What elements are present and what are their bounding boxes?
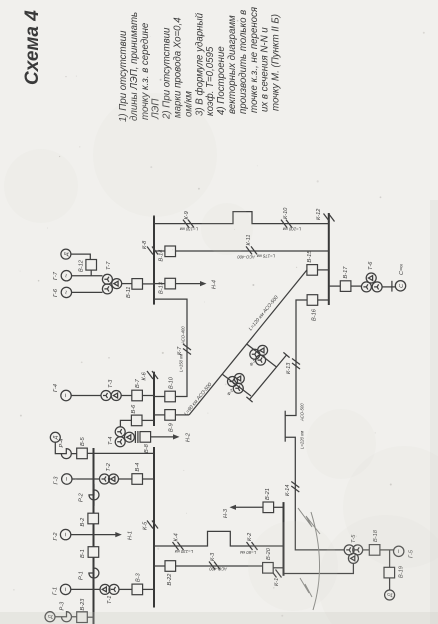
transformer Ф-2 (lower cluster) [226, 374, 244, 397]
wire В-4 to bus3b [143, 478, 155, 480]
svg-text:К-3: К-3 [210, 552, 216, 561]
svg-text:В-9: В-9 [169, 423, 175, 432]
svg-text:Н-2: Н-2 [186, 432, 192, 442]
transformer Т-6 [361, 261, 382, 292]
svg-text:Г-3: Г-3 [54, 476, 60, 485]
svg-text:В-11: В-11 [126, 287, 132, 298]
transformer Т-7 [102, 261, 121, 294]
svg-text:В-8: В-8 [144, 443, 150, 453]
load Н-2 arrow [151, 432, 192, 442]
bus section 3 (left) [153, 447, 155, 608]
reactor Р-4 [55, 439, 77, 459]
svg-text:Г-1: Г-1 [53, 587, 59, 595]
wire Д4 to В-12 [71, 254, 90, 259]
svg-text:К-4: К-4 [174, 533, 180, 541]
svg-text:Т-4: Т-4 [108, 437, 114, 445]
line К-3 (В-22 to В-20) [176, 565, 263, 567]
svg-text:векторных диаграмм: векторных диаграмм [227, 15, 238, 114]
svg-text:производить только в: производить только в [238, 10, 249, 114]
wire Г-2 through bus to load Н-1 [71, 531, 134, 540]
generator Г-1 [53, 584, 71, 595]
svg-text:Р-2: Р-2 [79, 492, 85, 502]
svg-text:их в сечения N-N и: их в сечения N-N и [260, 27, 271, 112]
diagonal line В-9 to В-15 (АСО-500) [189, 270, 307, 415]
load Н-3 arrow up [223, 505, 263, 518]
breaker В-23 [77, 598, 88, 623]
svg-text:С=∞: С=∞ [399, 264, 405, 275]
wire bus3 to В-22 [154, 565, 165, 567]
generator Г-2 [53, 529, 71, 540]
wire В-9 to diagonal [175, 414, 189, 416]
wire Т-6 to system [382, 286, 395, 288]
fault К-13 [286, 359, 300, 375]
motor Д3 [45, 612, 55, 622]
fault К-11 [246, 235, 257, 255]
reactor Р-3 [56, 601, 78, 622]
wire Т-5 to В-18 [363, 549, 369, 551]
wire Т-3 to В-7 [121, 395, 131, 397]
fault К-6 on bus3a [142, 371, 159, 381]
svg-text:В-21: В-21 [265, 488, 271, 500]
wire В-20 to bus4 [273, 567, 283, 569]
svg-text:К-6: К-6 [142, 371, 148, 380]
wire Т-7 to В-11 [122, 283, 132, 285]
fault К-3 [209, 552, 220, 570]
transformer Ф-1 (upper cluster) [248, 345, 267, 367]
svg-text:Т-7: Т-7 [106, 261, 112, 270]
svg-text:К-10: К-10 [283, 207, 289, 219]
wire branch to В-19 [389, 550, 391, 567]
svg-text:В-5: В-5 [80, 436, 86, 446]
svg-text:L=175 км: L=175 км [257, 254, 275, 259]
svg-text:К-8: К-8 [142, 240, 148, 249]
node M busbar [284, 411, 286, 442]
breaker В-6 [131, 404, 142, 426]
system С=бесконечность [395, 264, 405, 291]
breaker В-7 [132, 378, 143, 400]
wire В-21 to bus4 [274, 506, 284, 508]
svg-text:L=130 км: L=130 км [175, 549, 193, 554]
fault К-5 on bus3b [143, 521, 159, 531]
wire Т-2 to В-4 [119, 478, 132, 480]
line К-7 АСО-400 (to bus1) [154, 299, 187, 396]
wire Д1 to Р-4 [54, 442, 56, 453]
wire Т-1 to В-3 [119, 588, 132, 590]
wire bus2 to В-17 [329, 285, 341, 287]
svg-text:Г-7: Г-7 [53, 271, 59, 280]
wire bus1 to В-13 [154, 283, 165, 285]
svg-text:Р-1: Р-1 [79, 571, 85, 580]
transformer Т-1 [100, 584, 119, 604]
load Н-4 arrow [176, 280, 218, 289]
breaker В-19 [384, 566, 405, 578]
line АСО-500 from В-16 to node M [285, 300, 306, 416]
line К-11 (В-14 to bus2) [176, 250, 329, 252]
breaker В-9 [165, 410, 176, 432]
wire bus1 to В-14 [154, 250, 165, 252]
fault К-4 [173, 533, 184, 550]
svg-text:К-14: К-14 [285, 485, 291, 496]
svg-text:точку М. (Пункт II Б): точку М. (Пункт II Б) [271, 14, 282, 111]
svg-text:Т-3: Т-3 [108, 379, 114, 388]
svg-text:Н-4: Н-4 [212, 280, 218, 289]
pen mark squiggle 2 [300, 578, 312, 597]
svg-text:Схема 4: Схема 4 [22, 10, 43, 85]
breaker В-13 [159, 278, 176, 294]
svg-text:Н-3: Н-3 [223, 508, 229, 518]
transformer Т-5 [344, 534, 363, 564]
pen mark long arc [311, 512, 320, 610]
wire В-12 to Г-7 feeder [90, 270, 92, 276]
wire В-15 to bus2 [318, 269, 329, 271]
breaker В-11 [126, 279, 143, 298]
bus section 2 (middle) [153, 372, 155, 426]
breaker В-18 [369, 529, 380, 555]
line К-4/К-2 with hop (bus3 to bus4) [154, 531, 284, 546]
generator Г-7 [53, 271, 72, 281]
svg-text:Г-4: Г-4 [53, 384, 59, 392]
breaker В-3 [132, 572, 143, 594]
breaker В-8 [140, 432, 151, 453]
svg-text:Р-3: Р-3 [60, 601, 66, 611]
bus 2 (lower right 330kV) [328, 213, 330, 305]
svg-text:АСО-400: АСО-400 [209, 566, 228, 571]
transformer Т-4 [108, 427, 134, 447]
breaker В-16 [307, 295, 318, 321]
svg-text:Н-1: Н-1 [128, 531, 134, 540]
svg-text:3) В формуле ударный: 3) В формуле ударный [194, 12, 205, 116]
pen mark squiggle 1 [298, 508, 320, 534]
svg-text:В-17: В-17 [343, 266, 349, 279]
svg-text:В-10: В-10 [169, 376, 175, 389]
svg-text:точке к.з., не перенося: точке к.з., не перенося [249, 7, 260, 113]
fault К-7 [177, 344, 191, 355]
svg-text:В-15: В-15 [307, 250, 313, 263]
generator Г-4 [53, 384, 71, 401]
breaker В-14 [159, 246, 176, 262]
svg-text:L=220 км: L=220 км [300, 431, 305, 449]
breaker В-21 [263, 488, 274, 512]
wire Г-7 to Т-7 [72, 275, 103, 277]
svg-text:К-5: К-5 [143, 521, 149, 530]
wire В-3 to bus3b [143, 588, 154, 590]
svg-text:Г-6: Г-6 [53, 288, 59, 297]
fault К-8 on bus1 [142, 240, 158, 255]
breaker В-17 [340, 266, 351, 292]
svg-text:К-9: К-9 [184, 211, 190, 219]
rung with transformer Ф-2 [222, 374, 251, 396]
svg-text:В-12: В-12 [79, 259, 85, 272]
breaker В-20 [263, 547, 274, 573]
breaker В-22 [165, 561, 176, 586]
svg-text:В-2: В-2 [80, 517, 86, 527]
fault К-2 [247, 532, 258, 550]
wire В-7 to bus3a [142, 395, 154, 397]
svg-text:В-16: В-16 [312, 308, 318, 321]
bar junction [391, 281, 393, 292]
generator Г-3 [54, 474, 73, 485]
line L=220 км from node M to Т-5 [285, 437, 344, 550]
svg-text:АСО-500: АСО-500 [300, 403, 305, 422]
wire Т-5 third winding to bus4 [284, 563, 354, 573]
wire Д3 to Р-3 [54, 616, 57, 618]
reactor Р-1 on generator bus [79, 562, 99, 584]
svg-text:К-12: К-12 [316, 208, 322, 220]
breaker В-4 [132, 463, 143, 485]
svg-text:АСО-400: АСО-400 [181, 326, 186, 345]
wire В-5 to bus3b (crosses generator bus) [87, 452, 154, 454]
svg-text:Г-2: Г-2 [53, 532, 59, 541]
svg-text:Т-2: Т-2 [106, 462, 112, 471]
breaker В-12 [79, 259, 97, 272]
wire Т-4 to В-6 [120, 420, 131, 426]
notes text block [118, 7, 282, 122]
svg-text:Р-4: Р-4 [59, 439, 65, 448]
bus section 1 (right) [153, 216, 155, 305]
svg-text:L=150 км: L=150 км [179, 354, 184, 372]
transformer Т-3 [101, 379, 121, 401]
wire Г-3 to Т-2 [72, 478, 100, 480]
wire В-6 to bus3a [142, 419, 154, 421]
parallel rail of transformer ladder [246, 352, 289, 402]
fault К-12 on bus2 [316, 208, 335, 222]
svg-text:АСО-400: АСО-400 [237, 254, 256, 259]
generator Г-5 [394, 546, 415, 558]
generator bus (top left) [93, 448, 95, 624]
svg-text:В-4: В-4 [135, 463, 141, 472]
fault К-10 [281, 207, 292, 228]
svg-text:К-7: К-7 [177, 346, 183, 355]
svg-text:К-2: К-2 [247, 532, 253, 541]
wire bus to В-9 [154, 414, 165, 416]
rung with transformer Ф-1 [247, 344, 277, 367]
wire bus3a to В-10 [154, 396, 165, 398]
breaker В-1 on generator bus [80, 547, 99, 558]
svg-text:В-1: В-1 [80, 549, 86, 558]
svg-text:Т-1: Т-1 [107, 596, 113, 604]
breaker В-5 [77, 436, 88, 458]
svg-text:В-7: В-7 [135, 378, 141, 388]
svg-text:В-23: В-23 [80, 598, 86, 611]
svg-text:L=130 км: L=130 км [180, 227, 198, 232]
breaker В-10 [165, 376, 176, 402]
svg-text:В-6: В-6 [131, 404, 137, 414]
motor Д4 [61, 249, 71, 259]
fault К-9 [183, 211, 194, 227]
svg-text:В-3: В-3 [136, 572, 142, 582]
transformer Т-2 [100, 462, 119, 484]
svg-text:В-22: В-22 [167, 573, 173, 586]
svg-text:Т-6: Т-6 [368, 261, 374, 270]
svg-text:L=120 км АСО-500: L=120 км АСО-500 [248, 295, 280, 332]
svg-text:К-13: К-13 [286, 362, 292, 374]
wire Г-1 to Т-1 [71, 588, 101, 590]
wire Г-4 to Т-3 [71, 395, 101, 397]
svg-text:4) Построение: 4) Построение [216, 46, 227, 115]
wire В-23 to generator bus [87, 616, 93, 618]
wire Г-6 to Т-7 [72, 291, 103, 293]
fault К-1 [271, 570, 282, 587]
motor Д2 [385, 590, 395, 600]
generator Г-6 [53, 287, 72, 297]
breaker В-2 on generator bus [80, 513, 98, 526]
wire В-11 to bus1 [143, 283, 155, 285]
breaker В-15 [307, 250, 318, 275]
svg-text:L=90 км АСО-500: L=90 км АСО-500 [183, 382, 213, 417]
wire В-16 to bus2 [318, 299, 329, 301]
wire В-17 to Т-6 [351, 285, 362, 287]
line К-9/К-10 with hop [154, 212, 329, 224]
svg-text:коэф. Т=0,0595: коэф. Т=0,0595 [205, 46, 216, 116]
bar pair at Т-4 third winding [135, 431, 138, 443]
svg-text:С: С [399, 283, 405, 288]
wire В-18 to Г-5 [380, 549, 394, 551]
bus 4 (lower left) [283, 502, 285, 576]
wire В-19 to Д2 [389, 578, 391, 590]
motor Д1 [50, 432, 60, 442]
svg-text:L=200 км: L=200 км [283, 226, 301, 231]
fault К-14 [285, 482, 299, 497]
reactor Р-2 on generator bus [79, 484, 100, 506]
